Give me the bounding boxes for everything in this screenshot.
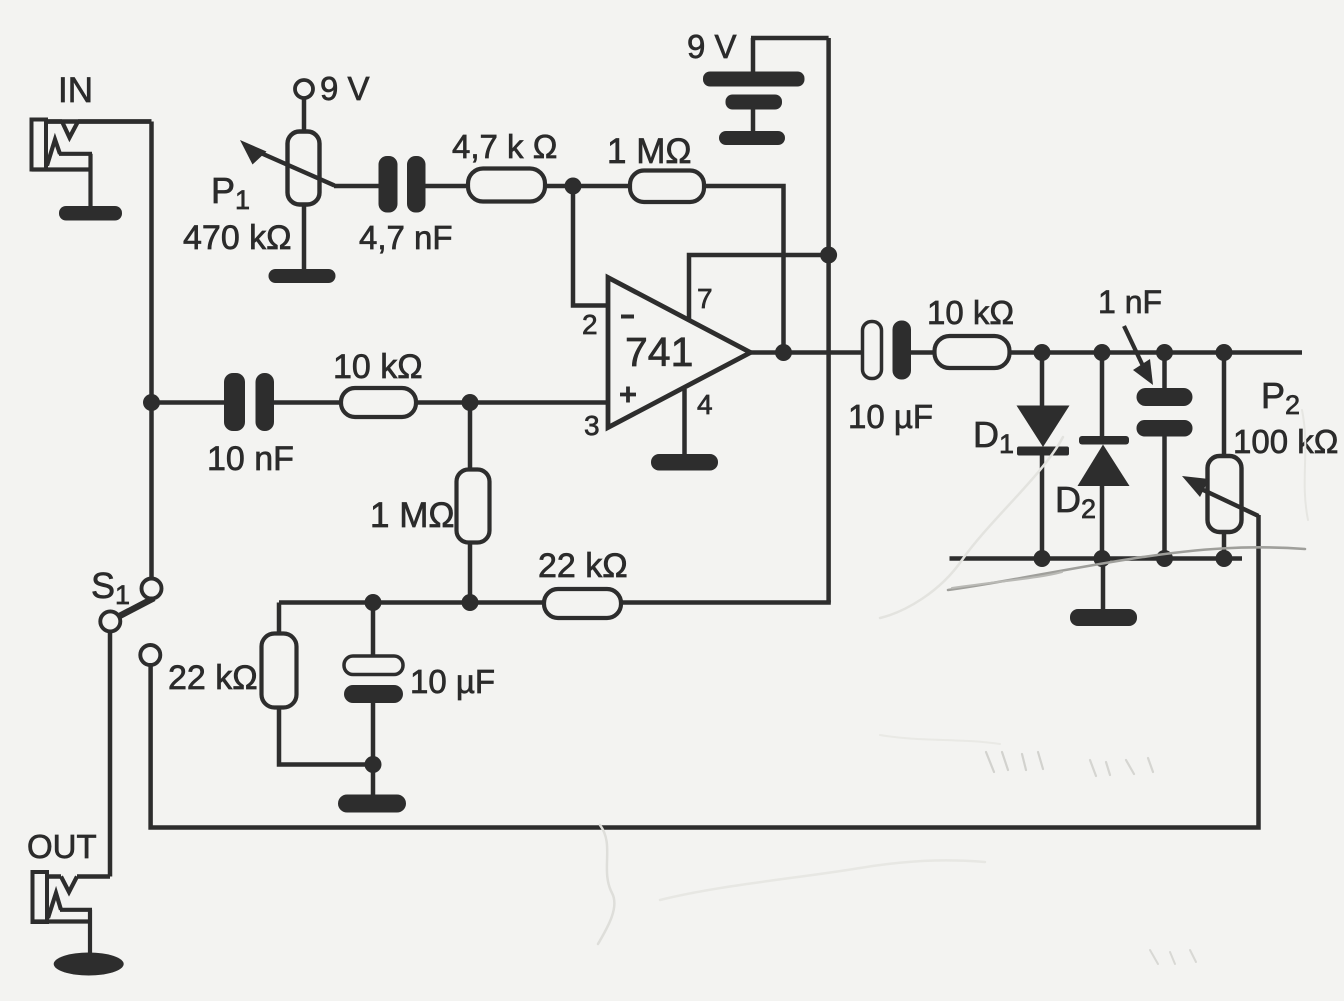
label 10 kOhm (input) [333,348,423,386]
wire left vertical rail from IN to S1 [149,122,154,581]
ground bias network [338,795,406,813]
svg-text:1 MΩ: 1 MΩ [607,132,692,171]
op-amp plus sign [620,387,636,403]
resistor 10 kOhm (input) [341,388,416,417]
node top rail D2 [1094,344,1111,361]
node A (R1/R2/pin2 junction) [565,178,582,195]
resistor 4,7 kOhm [468,169,545,202]
node bottom rail D2 [1094,550,1111,567]
resistor 1 MOhm (vertical bias) [457,470,490,543]
wire C3 bottom to node D [371,702,376,765]
node C (R4/R5 bias junction) [462,594,479,611]
wire S1 pole down to OUT jack [108,630,113,877]
svg-text:10 µF: 10 µF [848,398,933,435]
label S1 [91,565,130,610]
wire op-amp output to C4 [751,350,864,355]
wire node B down to R4 [468,403,473,472]
potentiometer P2 arrow [1182,476,1259,516]
resistor 22 kOhm (vertical) [262,634,297,708]
wire bias line node C left segment [279,600,545,605]
label pin 7 [697,283,713,314]
ground IN jack [59,206,122,221]
node C3 top junction [365,594,382,611]
bottom right rail [950,556,1243,561]
wire C4 to R7 [911,350,938,355]
wire S1 lower throw down and long bottom return to P2 wiper [151,515,1259,828]
wire C1 to R1 [424,184,470,189]
OUT jack connector [33,872,111,954]
ground OUT jack [54,953,124,976]
svg-text:1 MΩ: 1 MΩ [370,496,455,535]
wire R4 bottom to node C [468,541,473,603]
label pin 3 [584,410,600,441]
wire P2 branch [1222,353,1227,559]
wire R3 to pin 3 through node B [415,400,608,405]
label 100 kOhm [1233,423,1338,460]
node D (R6/C3 bottom junction) [365,756,382,773]
label 1 nF [1098,284,1162,320]
svg-text:9 V: 9 V [320,70,370,107]
switch S1 lower contact [140,645,160,665]
wire R7 to right rail [1009,350,1302,355]
label IN [58,71,93,110]
diode D2 [1078,436,1130,486]
capacitor 4,7 nF plates [379,156,426,213]
svg-text:3: 3 [584,410,600,441]
wire op-amp pin 7 to 9V rail [689,255,829,320]
op-amp minus sign [621,315,634,319]
potentiometer P1 body [288,132,320,205]
svg-text:IN: IN [58,71,93,110]
9V supply terminal circle [295,80,313,98]
capacitor 1 nF pointer arrow [1124,326,1153,385]
node bottom rail C5 [1156,550,1173,567]
ground P1 [269,269,336,283]
label D2 [1055,479,1096,524]
resistor 10 kOhm (output) [935,336,1010,368]
svg-text:4,7 k Ω: 4,7 k Ω [452,128,557,165]
node 9V rail / pin 7 junction [820,247,837,264]
svg-text:2: 2 [582,309,598,340]
label 10 kOhm (output) [927,294,1014,331]
wire P1 wiper to C1 [334,184,380,189]
svg-text:10 kΩ: 10 kΩ [927,294,1014,331]
capacitor 10 nF plates [224,373,274,431]
label 9 V (battery) [687,28,737,65]
wire R1 to R2 through node A [541,184,631,189]
node B (R3/pin3/R4 junction) [462,394,479,411]
label D1 [973,414,1014,459]
ground op-amp pin 4 [651,454,718,471]
node top rail P2 [1216,344,1233,361]
wire R2 to feedback corner down to output node [703,186,784,353]
9V rail vertical [826,38,831,603]
battery 9V bars [703,72,805,146]
svg-text:741: 741 [625,329,693,375]
wire R6 bottom to node D [279,706,373,765]
wire node C down to C3 top [371,603,376,658]
node top rail D1 [1034,344,1051,361]
label 741 [625,329,693,375]
wire D1 branch [1040,353,1045,559]
wire input node to C2 [152,400,226,405]
svg-text:100 kΩ: 100 kΩ [1233,423,1338,460]
capacitor 1 nF plates [1137,388,1193,437]
svg-text:7: 7 [697,283,713,314]
potentiometer P2 body [1208,456,1242,532]
wire R5 to 9V rail bottom corner [620,600,831,605]
scan artifacts [598,410,1308,964]
label pin 2 [582,309,598,340]
op-amp U1 741 triangle [608,278,751,428]
capacitor 10 uF bottom (electrolytic) [344,656,403,703]
node output (op-amp output junction) [775,344,792,361]
label 22 kOhm (vertical) [168,659,258,697]
diode D1 [1017,406,1070,456]
node bottom rail D1 [1034,550,1051,567]
wire node C area down through R6 branch [277,603,282,636]
svg-text:22 kΩ: 22 kΩ [168,659,258,697]
switch S1 top contact [142,579,162,599]
wire C2 to R3 [273,400,342,405]
wire node D to ground [371,765,376,796]
label 10 nF [207,440,294,478]
label 1 MOhm (bias) [370,496,455,535]
wire P1 bottom to ground [302,204,307,270]
wire node A down to pin 2 [573,186,608,306]
svg-text:10 kΩ: 10 kΩ [333,348,423,386]
label 22 kOhm (horizontal) [538,547,628,585]
svg-text:10 µF: 10 µF [410,663,495,700]
svg-text:OUT: OUT [27,828,97,865]
ground clipping network [1070,609,1137,626]
IN jack connector [32,120,152,207]
switch S1 lever [111,598,154,621]
label 10 uF (bottom) [410,663,495,700]
resistor 22 kOhm (horizontal bias) [544,589,621,618]
wire battery plus terminal [751,38,829,72]
wire IN jack tip to left rail corner [47,119,152,124]
node top rail C5 [1156,344,1173,361]
svg-text:4: 4 [697,389,713,420]
label pin 4 [697,389,713,420]
node bottom rail P2 [1216,550,1233,567]
label 4,7 kOhm [452,128,557,165]
label 9 V (P1 supply) [320,70,370,107]
wire C5 branch [1162,353,1167,559]
wire 9V terminal to P1 top [302,97,307,133]
wire op-amp pin 4 to ground [682,389,687,455]
label 4,7 nF [359,219,453,256]
label OUT [27,828,97,865]
svg-text:470 kΩ: 470 kΩ [183,219,292,257]
label P2 [1261,375,1300,420]
potentiometer P1 arrow [240,140,335,186]
wire battery internal stub [751,110,756,133]
node input (junction on left rail) [143,394,160,411]
capacitor 10 uF output (electrolytic) [863,321,912,380]
label 470 kOhm [183,219,292,257]
label 10 uF (output) [848,398,933,435]
wire D2 branch [1100,353,1105,559]
resistor 1 MOhm (feedback) [630,171,704,203]
label 1 MOhm (feedback) [607,132,692,171]
wire ground stub below D2 [1101,559,1106,611]
svg-text:10 nF: 10 nF [207,440,294,478]
svg-text:1 nF: 1 nF [1098,284,1162,320]
switch S1 pole contact [100,611,120,631]
svg-text:9 V: 9 V [687,28,737,65]
label P1 [211,170,250,215]
svg-text:4,7 nF: 4,7 nF [359,219,453,256]
svg-text:22 kΩ: 22 kΩ [538,547,628,585]
